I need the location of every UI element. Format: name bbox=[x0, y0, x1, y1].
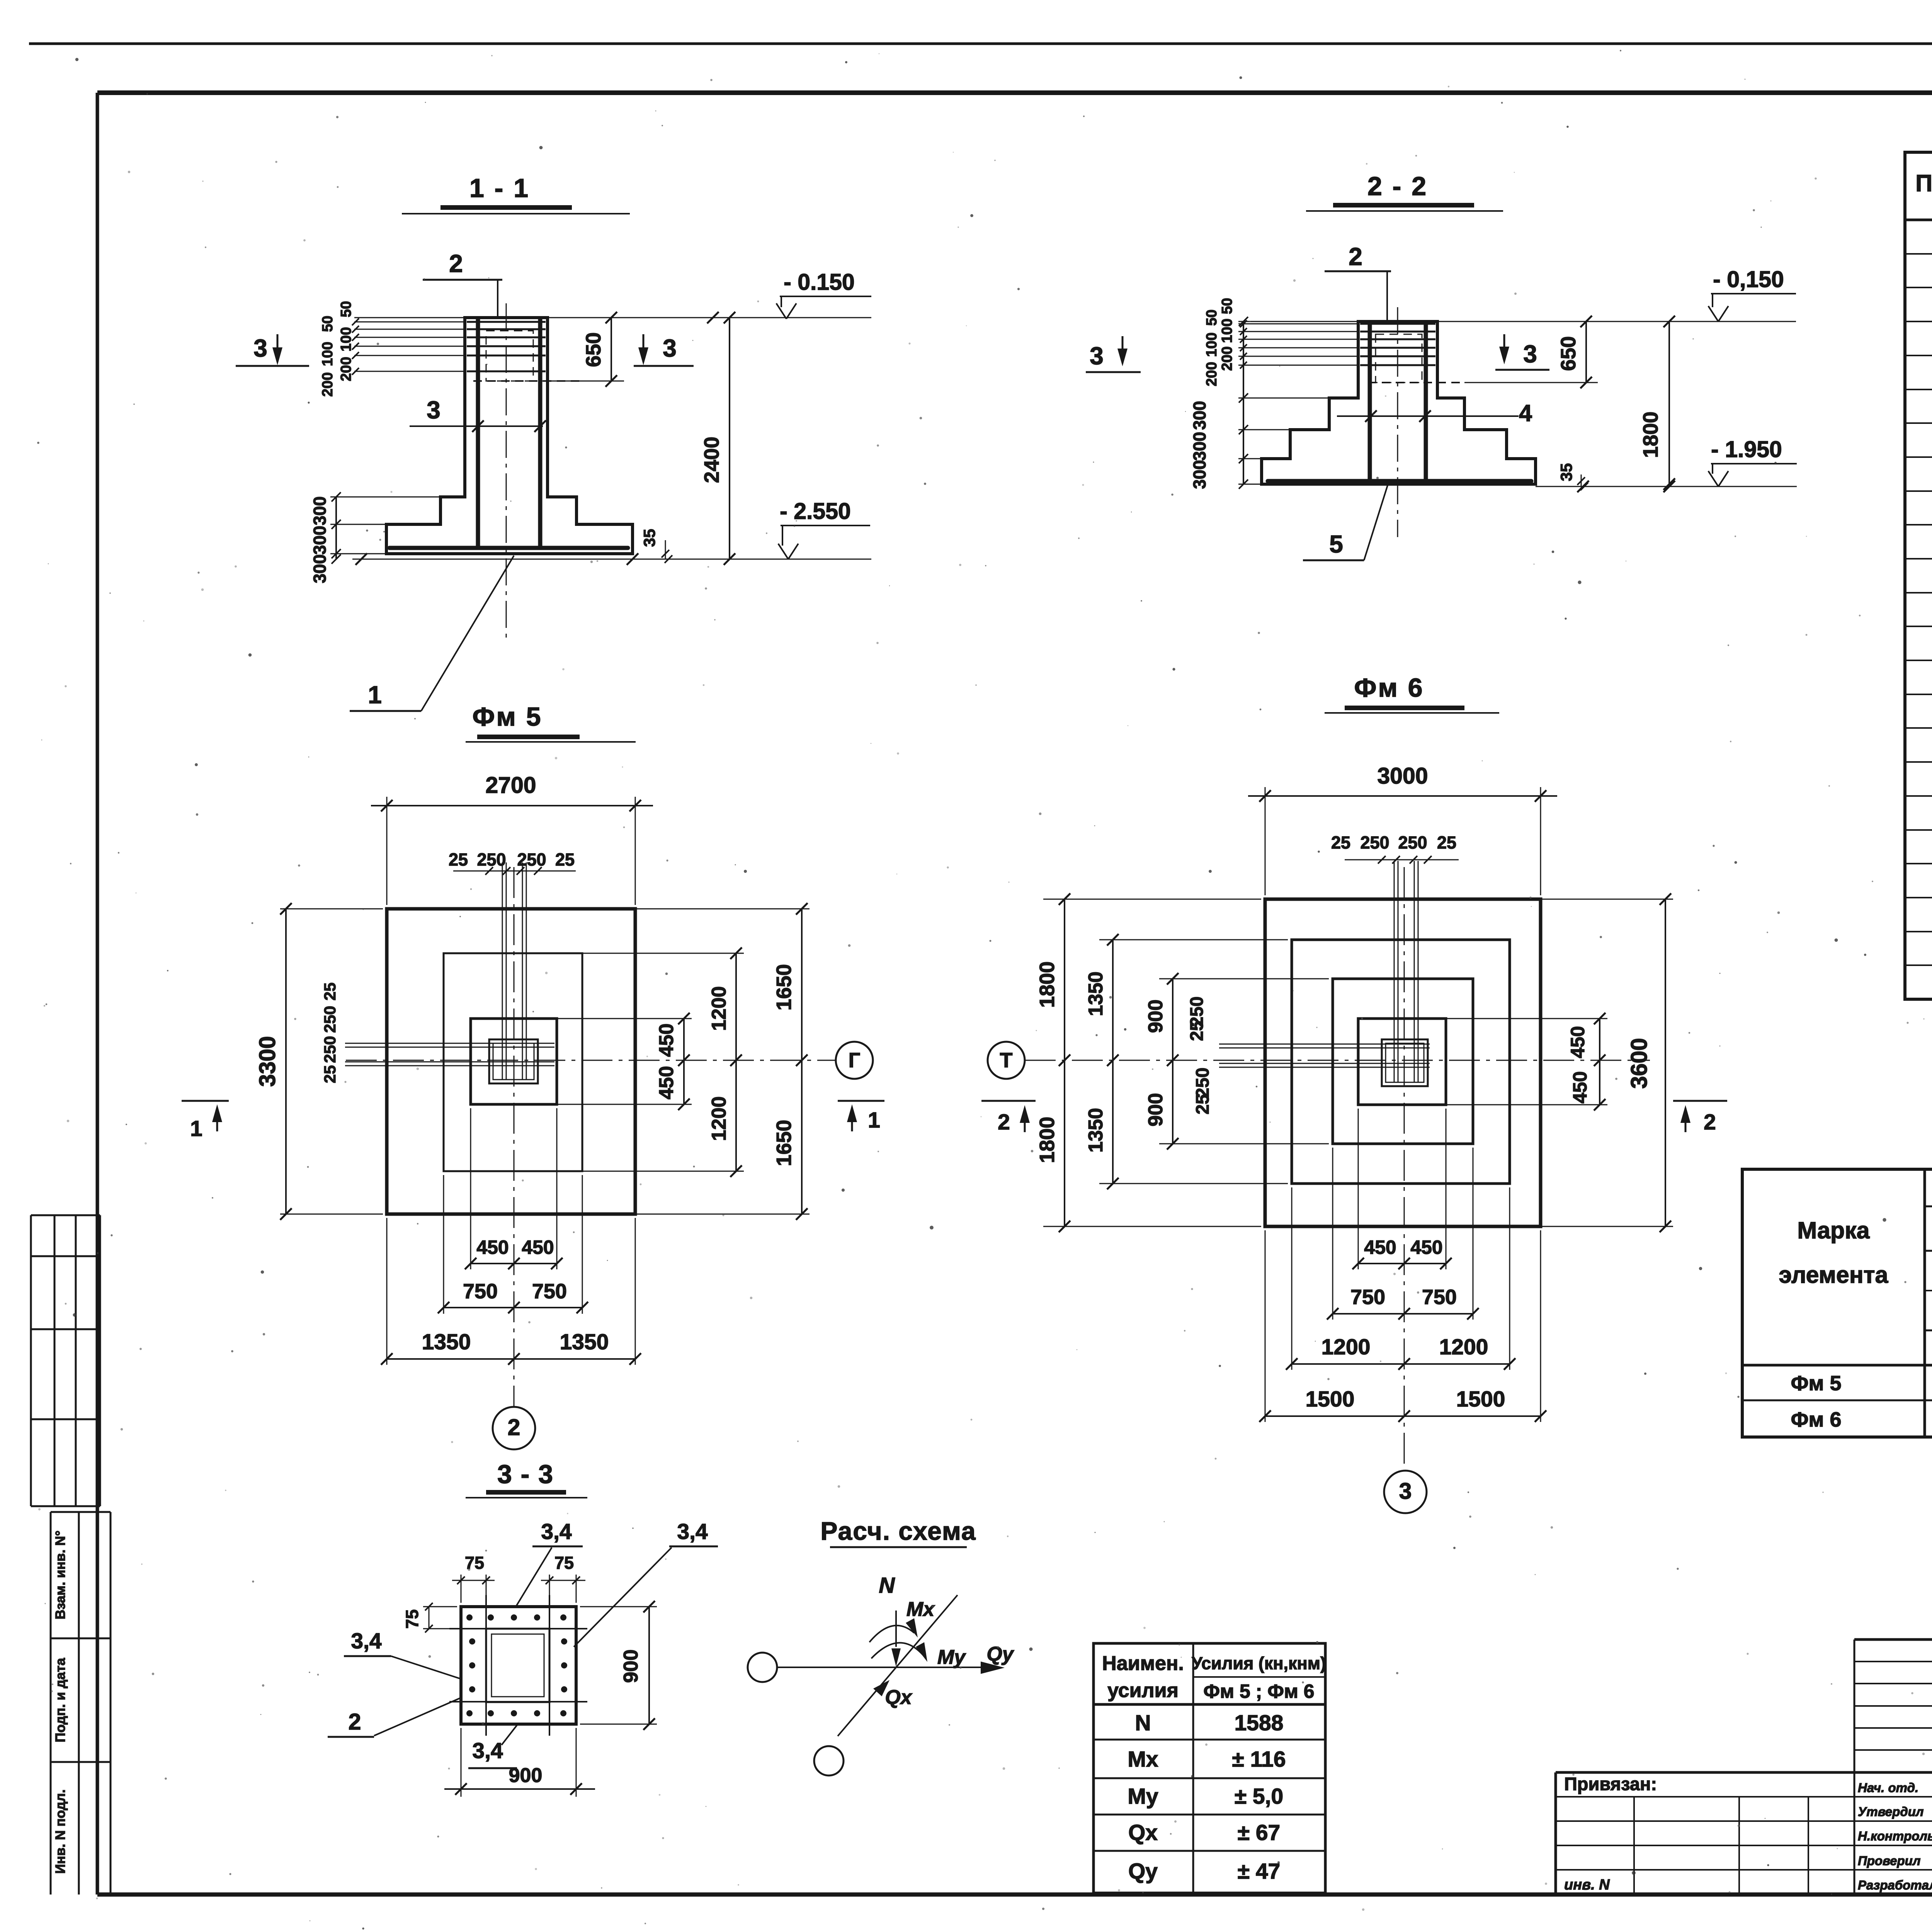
svg-text:35: 35 bbox=[1557, 463, 1575, 481]
svg-text:Фм 5: Фм 5 bbox=[472, 702, 542, 731]
svg-text:3300: 3300 bbox=[255, 1036, 280, 1087]
svg-text:Н.контроль: Н.контроль bbox=[1858, 1829, 1932, 1843]
svg-text:My: My bbox=[1128, 1784, 1158, 1809]
svg-text:1588: 1588 bbox=[1235, 1711, 1284, 1735]
svg-text:450: 450 bbox=[655, 1024, 678, 1057]
svg-text:25: 25 bbox=[1331, 833, 1350, 852]
svg-text:1200: 1200 bbox=[1321, 1335, 1371, 1359]
svg-text:900: 900 bbox=[620, 1650, 642, 1683]
svg-text:2: 2 bbox=[1349, 243, 1362, 270]
svg-text:900: 900 bbox=[1145, 1000, 1167, 1033]
svg-text:Г: Г bbox=[849, 1049, 861, 1072]
svg-text:Расч. схема: Расч. схема bbox=[820, 1517, 976, 1545]
svg-text:250: 250 bbox=[321, 1006, 339, 1033]
svg-text:Mx: Mx bbox=[906, 1598, 935, 1621]
svg-text:250: 250 bbox=[1360, 833, 1389, 852]
svg-text:200: 200 bbox=[338, 357, 354, 381]
svg-text:25: 25 bbox=[1186, 1021, 1207, 1041]
svg-text:Утвердил: Утвердил bbox=[1858, 1804, 1923, 1819]
svg-text:1350: 1350 bbox=[1085, 971, 1107, 1016]
svg-text:3: 3 bbox=[253, 334, 267, 362]
svg-text:750: 750 bbox=[463, 1280, 498, 1303]
svg-text:300: 300 bbox=[1190, 460, 1209, 489]
svg-text:100: 100 bbox=[1219, 318, 1235, 343]
svg-text:- 0.150: - 0.150 bbox=[784, 269, 855, 295]
svg-text:± 47: ± 47 bbox=[1238, 1859, 1281, 1884]
svg-text:2400: 2400 bbox=[700, 437, 723, 483]
svg-text:Фм 6: Фм 6 bbox=[1354, 673, 1424, 702]
svg-text:650: 650 bbox=[582, 332, 605, 367]
svg-text:Привязан:: Привязан: bbox=[1564, 1774, 1657, 1794]
svg-text:Взам. инв. N°: Взам. инв. N° bbox=[53, 1531, 68, 1619]
svg-text:2: 2 bbox=[998, 1110, 1010, 1134]
svg-text:Разработал: Разработал bbox=[1858, 1878, 1932, 1892]
svg-text:Нач. отд.: Нач. отд. bbox=[1858, 1781, 1918, 1795]
svg-text:300: 300 bbox=[1190, 432, 1209, 461]
svg-text:Т: Т bbox=[1000, 1049, 1013, 1072]
svg-text:1500: 1500 bbox=[1306, 1387, 1355, 1412]
svg-text:1650: 1650 bbox=[772, 964, 796, 1010]
svg-text:1 - 1: 1 - 1 bbox=[469, 173, 530, 203]
svg-text:2 - 2: 2 - 2 bbox=[1367, 172, 1428, 201]
svg-text:1: 1 bbox=[868, 1108, 880, 1133]
svg-text:3,4: 3,4 bbox=[677, 1519, 708, 1544]
svg-text:900: 900 bbox=[1145, 1093, 1167, 1127]
svg-text:250: 250 bbox=[1398, 833, 1427, 852]
svg-text:50: 50 bbox=[1204, 310, 1220, 326]
svg-text:1800: 1800 bbox=[1036, 1117, 1059, 1163]
svg-text:Фм 6: Фм 6 bbox=[1791, 1408, 1841, 1431]
svg-text:250: 250 bbox=[477, 850, 506, 869]
svg-text:450: 450 bbox=[1410, 1236, 1442, 1258]
svg-text:75: 75 bbox=[465, 1553, 484, 1573]
svg-text:Фм 5 ; Фм 6: Фм 5 ; Фм 6 bbox=[1203, 1680, 1314, 1702]
svg-text:1200: 1200 bbox=[1439, 1335, 1488, 1359]
svg-text:1350: 1350 bbox=[1085, 1108, 1107, 1153]
svg-text:2700: 2700 bbox=[485, 772, 536, 798]
svg-text:инв. N: инв. N bbox=[1564, 1877, 1610, 1893]
svg-text:75: 75 bbox=[554, 1553, 574, 1573]
svg-text:1350: 1350 bbox=[560, 1330, 609, 1354]
svg-text:Поз.: Поз. bbox=[1915, 170, 1932, 196]
svg-text:± 67: ± 67 bbox=[1238, 1820, 1281, 1845]
svg-text:300: 300 bbox=[310, 554, 330, 583]
svg-text:25: 25 bbox=[1192, 1094, 1213, 1114]
svg-text:4: 4 bbox=[1519, 400, 1532, 426]
svg-text:3: 3 bbox=[663, 334, 677, 362]
svg-text:My: My bbox=[937, 1646, 966, 1668]
svg-text:1200: 1200 bbox=[708, 986, 730, 1031]
svg-text:450: 450 bbox=[1569, 1071, 1591, 1103]
svg-text:Подп. и дата: Подп. и дата bbox=[53, 1658, 68, 1742]
svg-text:- 1.950: - 1.950 bbox=[1711, 437, 1782, 462]
svg-text:1800: 1800 bbox=[1639, 412, 1662, 458]
svg-text:Наимен.: Наимен. bbox=[1102, 1652, 1184, 1675]
svg-text:3000: 3000 bbox=[1377, 763, 1428, 789]
svg-text:Mx: Mx bbox=[1128, 1747, 1158, 1772]
svg-text:1350: 1350 bbox=[422, 1330, 471, 1354]
svg-text:Фм 5: Фм 5 bbox=[1791, 1372, 1841, 1395]
svg-text:25: 25 bbox=[1437, 833, 1456, 852]
svg-text:25: 25 bbox=[555, 850, 575, 869]
svg-text:100: 100 bbox=[1204, 332, 1220, 357]
svg-text:1: 1 bbox=[190, 1116, 202, 1141]
svg-text:Инв. N подл.: Инв. N подл. bbox=[53, 1789, 68, 1874]
svg-text:Марка: Марка bbox=[1797, 1217, 1870, 1243]
svg-text:750: 750 bbox=[1350, 1286, 1385, 1309]
svg-text:2: 2 bbox=[349, 1709, 361, 1735]
svg-text:2: 2 bbox=[1704, 1110, 1716, 1134]
svg-text:усилия: усилия bbox=[1107, 1679, 1179, 1702]
svg-text:Qx: Qx bbox=[885, 1686, 912, 1709]
svg-text:Qx: Qx bbox=[1128, 1820, 1158, 1845]
svg-text:200: 200 bbox=[320, 372, 336, 396]
svg-text:3600: 3600 bbox=[1626, 1038, 1652, 1088]
svg-text:- 2.550: - 2.550 bbox=[780, 498, 851, 524]
svg-text:Усилия (кн,кнм): Усилия (кн,кнм) bbox=[1192, 1653, 1326, 1673]
svg-text:200: 200 bbox=[1219, 346, 1235, 371]
svg-text:450: 450 bbox=[655, 1066, 678, 1100]
svg-text:250: 250 bbox=[517, 850, 546, 869]
svg-text:3,4: 3,4 bbox=[472, 1738, 503, 1763]
svg-text:N: N bbox=[879, 1573, 895, 1598]
svg-text:650: 650 bbox=[1557, 336, 1580, 371]
svg-text:25: 25 bbox=[449, 850, 468, 869]
svg-text:75: 75 bbox=[402, 1609, 422, 1629]
svg-text:элемента: элемента bbox=[1779, 1262, 1889, 1288]
svg-text:50: 50 bbox=[338, 301, 354, 317]
svg-text:300: 300 bbox=[1190, 401, 1209, 430]
svg-text:50: 50 bbox=[320, 316, 336, 332]
svg-text:100: 100 bbox=[338, 327, 354, 351]
svg-text:2: 2 bbox=[508, 1415, 520, 1440]
svg-text:450: 450 bbox=[522, 1236, 554, 1258]
svg-text:3: 3 bbox=[1399, 1478, 1412, 1504]
svg-text:50: 50 bbox=[1219, 298, 1235, 314]
svg-text:750: 750 bbox=[532, 1280, 567, 1303]
svg-text:3 - 3: 3 - 3 bbox=[497, 1459, 554, 1489]
svg-text:300: 300 bbox=[310, 496, 330, 525]
svg-text:1500: 1500 bbox=[1456, 1387, 1505, 1412]
svg-text:Qy: Qy bbox=[1128, 1859, 1158, 1884]
svg-text:± 5,0: ± 5,0 bbox=[1235, 1784, 1283, 1809]
svg-text:3: 3 bbox=[427, 396, 440, 424]
svg-text:100: 100 bbox=[320, 342, 336, 366]
svg-text:Проверил: Проверил bbox=[1858, 1854, 1920, 1868]
svg-text:3: 3 bbox=[1090, 342, 1104, 370]
svg-text:1650: 1650 bbox=[772, 1120, 796, 1166]
svg-text:750: 750 bbox=[1422, 1286, 1457, 1309]
svg-text:± 116: ± 116 bbox=[1232, 1747, 1286, 1772]
svg-text:Qy: Qy bbox=[986, 1643, 1014, 1665]
svg-text:2: 2 bbox=[449, 250, 463, 277]
svg-text:3,4: 3,4 bbox=[541, 1519, 572, 1544]
svg-text:5: 5 bbox=[1329, 530, 1343, 558]
svg-text:200: 200 bbox=[1204, 362, 1220, 386]
svg-text:250: 250 bbox=[321, 1036, 339, 1063]
svg-text:3: 3 bbox=[1523, 340, 1537, 368]
svg-text:- 0,150: - 0,150 bbox=[1713, 267, 1784, 292]
svg-text:450: 450 bbox=[1364, 1236, 1396, 1258]
svg-text:450: 450 bbox=[1567, 1026, 1588, 1058]
svg-text:250: 250 bbox=[1192, 1068, 1213, 1098]
svg-text:35: 35 bbox=[640, 529, 658, 547]
svg-text:25: 25 bbox=[321, 983, 339, 1001]
svg-text:300: 300 bbox=[310, 526, 330, 554]
svg-text:3,4: 3,4 bbox=[351, 1629, 382, 1653]
svg-text:450: 450 bbox=[476, 1236, 509, 1258]
svg-text:1: 1 bbox=[368, 681, 382, 709]
svg-text:1200: 1200 bbox=[708, 1096, 730, 1141]
svg-text:N: N bbox=[1135, 1711, 1151, 1735]
svg-text:1800: 1800 bbox=[1036, 961, 1059, 1008]
svg-text:25: 25 bbox=[321, 1065, 339, 1083]
